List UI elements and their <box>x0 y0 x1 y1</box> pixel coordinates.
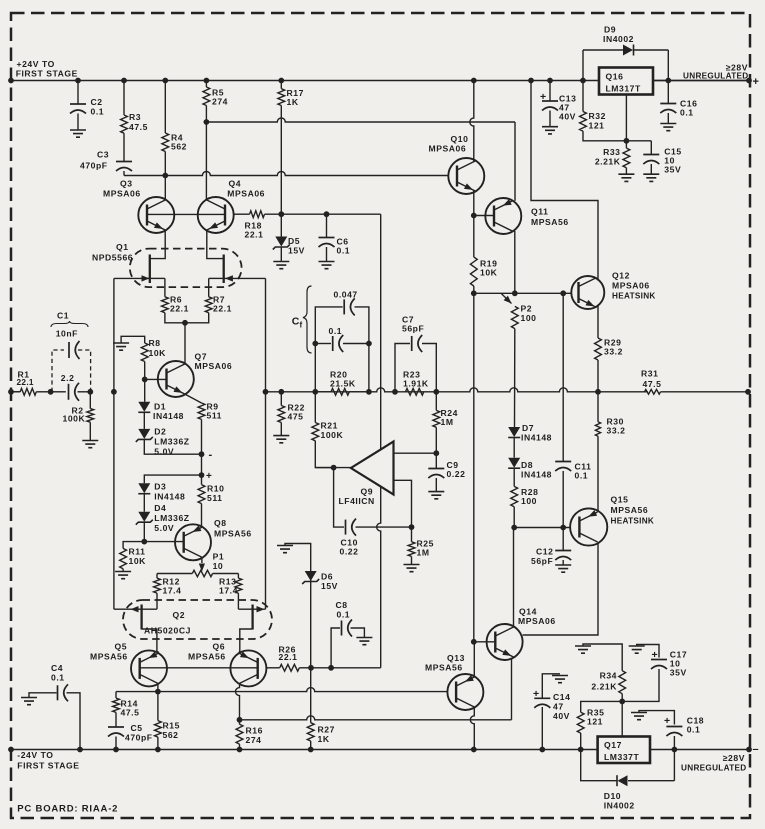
transistor Q6 MPSA56 <box>230 650 266 686</box>
transistor Q11 MPSA56 <box>485 198 521 234</box>
svg-text:UNREGULATED: UNREGULATED <box>683 72 748 81</box>
op-amp Q9 LF411CN <box>351 442 394 495</box>
resistor R21 <box>314 392 316 423</box>
wire Q14 emitter <box>511 658 513 720</box>
feedback caps Cf <box>315 307 342 392</box>
transistor Q10 MPSA06 <box>448 158 484 194</box>
svg-text:AH5020CJ: AH5020CJ <box>144 626 191 636</box>
svg-text:MPSA56: MPSA56 <box>425 663 463 673</box>
svg-text:22.1: 22.1 <box>213 304 232 314</box>
resistor R27 <box>310 668 312 723</box>
transistor Q15 MPSA56 HEATSINK <box>570 508 607 545</box>
wire Q13 collector to rail <box>470 707 474 750</box>
capacitor C4 <box>29 693 57 698</box>
svg-text:MPSA06: MPSA06 <box>612 281 650 291</box>
capacitor C7 <box>395 344 410 392</box>
wire Q5-Q6 base tie <box>140 667 258 669</box>
resistor R23 <box>406 388 424 395</box>
svg-text:0.047: 0.047 <box>334 290 358 300</box>
JFET Q1 left gate wire to input node <box>114 277 150 279</box>
regulator Q16 LM317T <box>599 68 653 95</box>
wire Q5 collector to node <box>157 684 159 692</box>
svg-text:0.1: 0.1 <box>687 725 701 735</box>
capacitor C2 <box>77 81 79 105</box>
resistor R35 <box>581 701 623 712</box>
capacitor C16 <box>667 81 669 104</box>
svg-text:P1: P1 <box>213 552 225 562</box>
svg-text:HEATSINK: HEATSINK <box>612 292 656 301</box>
resistor R9 <box>198 403 205 419</box>
wire op-amp output <box>315 467 351 469</box>
svg-text:33.2: 33.2 <box>604 347 623 357</box>
svg-text:+: + <box>206 471 212 482</box>
svg-text:40V: 40V <box>553 711 570 721</box>
trimpot P1 <box>201 557 203 563</box>
svg-text:LM336Z: LM336Z <box>154 513 189 523</box>
wire Q11 collector to P2 node <box>514 231 516 293</box>
resistor R26 <box>266 667 279 669</box>
dual JFET Q2 AH5020CJ dashed outline <box>123 600 272 639</box>
svg-text:≥28V: ≥28V <box>723 753 745 763</box>
svg-text:0.22: 0.22 <box>447 469 466 479</box>
wire R6/R7 junction to Q7 collector <box>184 323 186 364</box>
svg-text:Q14: Q14 <box>519 607 537 617</box>
svg-text:22.1: 22.1 <box>170 304 189 314</box>
wire Q16 adj pin <box>625 95 627 141</box>
resistor R20 <box>331 388 349 395</box>
resistor R1 <box>11 391 20 393</box>
node minus <box>199 451 205 457</box>
capacitor C9 <box>435 453 437 468</box>
svg-text:+: + <box>753 76 759 88</box>
svg-text:MPSA06: MPSA06 <box>227 189 265 199</box>
svg-text:Q17: Q17 <box>604 740 622 750</box>
wire Q17 adj pin <box>621 701 623 736</box>
svg-text:NPD5566: NPD5566 <box>92 253 133 263</box>
capacitor C17 <box>637 645 659 658</box>
svg-text:D8: D8 <box>521 460 533 470</box>
svg-text:R31: R31 <box>641 369 658 379</box>
resistor R22 <box>280 392 282 406</box>
node -24V rail <box>11 749 598 751</box>
wire negative feed to op-amp V- <box>311 667 381 669</box>
JFET Q1 left half <box>149 255 151 630</box>
svg-text:–: – <box>753 744 759 756</box>
svg-text:0.1: 0.1 <box>51 673 65 683</box>
transistor Q5 MPSA56 <box>131 650 167 686</box>
capacitor C1 bypass dashed box <box>52 350 91 392</box>
diode D3 <box>144 475 201 483</box>
svg-text:2.21K: 2.21K <box>591 682 617 692</box>
svg-text:C3: C3 <box>97 150 109 160</box>
svg-text:2.2: 2.2 <box>61 373 75 383</box>
resistor R8 <box>121 336 145 343</box>
svg-text:56pF: 56pF <box>531 556 553 566</box>
svg-text:Q13: Q13 <box>447 653 465 663</box>
svg-text:Q12: Q12 <box>612 271 630 281</box>
svg-text:C5: C5 <box>131 723 143 733</box>
capacitor C3 <box>116 161 132 163</box>
svg-text:Q9: Q9 <box>361 487 374 497</box>
svg-text:Q6: Q6 <box>213 642 226 652</box>
wire input bus <box>11 391 20 393</box>
svg-text:470pF: 470pF <box>80 161 108 171</box>
svg-text:Q3: Q3 <box>120 179 133 189</box>
capacitor 2.2 <box>48 389 54 395</box>
wire Q16 output node <box>653 80 749 82</box>
svg-text:D10: D10 <box>604 791 621 801</box>
capacitor C12 <box>562 528 564 551</box>
svg-text:33.2: 33.2 <box>607 426 626 436</box>
svg-text:17.4: 17.4 <box>219 586 238 596</box>
JFET Q1 right half <box>223 255 225 284</box>
svg-text:MPSA56: MPSA56 <box>531 217 569 227</box>
resistor R3 <box>123 81 125 116</box>
svg-text:10K: 10K <box>149 348 167 358</box>
wire Q3-Q4 base tie <box>147 213 225 215</box>
resistor R18 <box>234 213 250 215</box>
resistor R14 <box>115 692 117 699</box>
resistor R5 <box>205 81 207 88</box>
svg-text:LM317T: LM317T <box>606 84 641 94</box>
svg-text:MPSA06: MPSA06 <box>518 616 556 626</box>
capacitor Cf 0.1 <box>315 343 331 345</box>
wire Q14 collector <box>513 528 515 628</box>
diode D8 <box>513 438 515 458</box>
svg-text:35V: 35V <box>670 668 687 678</box>
svg-text:R34: R34 <box>600 671 617 681</box>
svg-text:LM336Z: LM336Z <box>154 437 189 447</box>
svg-text:+: + <box>533 688 539 700</box>
capacitor C18 <box>639 711 674 725</box>
svg-text:1K: 1K <box>318 734 330 744</box>
svg-text:Q16: Q16 <box>606 72 624 82</box>
svg-text:15V: 15V <box>321 581 338 591</box>
resistor R24 <box>435 392 437 411</box>
zener D4 LM336Z <box>143 494 145 512</box>
capacitor C14 <box>541 707 543 750</box>
resistor R28 <box>513 468 515 486</box>
wire Q6 collector <box>236 684 240 720</box>
svg-text:C2: C2 <box>91 97 103 107</box>
resistor R2 <box>87 389 93 395</box>
svg-text:R8: R8 <box>149 338 161 348</box>
resistor R17 <box>280 81 282 89</box>
svg-text:R10: R10 <box>207 484 224 494</box>
svg-text:IN4148: IN4148 <box>521 470 552 480</box>
svg-text:Q1: Q1 <box>116 242 129 252</box>
node +24V rail <box>11 80 599 82</box>
wire op-amp + input <box>394 452 437 454</box>
svg-text:+: + <box>664 715 670 727</box>
svg-text:Q7: Q7 <box>195 352 208 362</box>
svg-text:Q4: Q4 <box>229 179 242 189</box>
svg-text:0.22: 0.22 <box>340 547 359 557</box>
resistor R15 <box>157 692 159 721</box>
resistor R12 <box>156 574 158 579</box>
svg-text:47: 47 <box>553 702 564 712</box>
svg-text:-: - <box>209 449 213 461</box>
svg-text:D9: D9 <box>604 25 616 35</box>
svg-text:1.91K: 1.91K <box>403 379 429 389</box>
svg-text:D5: D5 <box>288 236 300 246</box>
svg-text:1M: 1M <box>441 417 454 427</box>
svg-text:D1: D1 <box>154 402 166 412</box>
dual JFET Q1 NPD5566 dashed outline <box>130 249 242 288</box>
wire Q6 emitter <box>239 651 241 654</box>
svg-text:D2: D2 <box>154 427 166 437</box>
wire Q5 emitter <box>157 651 159 654</box>
svg-text:+24V TO: +24V TO <box>17 59 55 69</box>
svg-text:Q10: Q10 <box>451 134 469 144</box>
svg-text:511: 511 <box>207 493 223 503</box>
capacitor C10 <box>334 468 344 527</box>
svg-text:R15: R15 <box>163 721 180 731</box>
svg-text:R32: R32 <box>589 111 606 121</box>
JFET Q2 right half <box>238 608 265 610</box>
svg-text:100K: 100K <box>63 413 86 423</box>
svg-text:Q15: Q15 <box>611 495 629 505</box>
svg-text:LF4IICN: LF4IICN <box>339 496 375 506</box>
wire R19 node down to Q14 base <box>473 293 475 642</box>
JFET Q1 right gate wire to feedback node <box>224 277 266 279</box>
wire R16 line <box>240 716 512 720</box>
svg-text:1K: 1K <box>287 97 299 107</box>
svg-text:+: + <box>540 91 546 103</box>
resistor R7 <box>205 297 212 313</box>
capacitor C6 <box>326 214 328 237</box>
resistor R6 <box>162 297 169 313</box>
svg-text:PC BOARD: RIAA-2: PC BOARD: RIAA-2 <box>17 804 118 815</box>
diode D10 IN4002 <box>581 750 618 781</box>
wire rail to Q12 collector <box>531 81 598 281</box>
resistor R19 <box>473 216 475 258</box>
wire Q7 emitter to R9 <box>185 394 202 403</box>
wire Q3 emitter to Q1 drain <box>150 230 165 259</box>
svg-text:MPSA56: MPSA56 <box>214 529 252 539</box>
diode D7 <box>514 329 516 427</box>
svg-text:D7: D7 <box>522 423 534 433</box>
svg-text:0.1: 0.1 <box>680 108 694 118</box>
svg-text:MPSA06: MPSA06 <box>429 144 467 154</box>
svg-text:FIRST STAGE: FIRST STAGE <box>17 761 79 771</box>
zener diode D5 <box>280 214 282 236</box>
wire Q13 emitter <box>473 642 475 677</box>
capacitor C8 <box>331 628 340 668</box>
svg-text:R11: R11 <box>129 547 146 557</box>
JFET Q2 left half <box>114 608 157 610</box>
resistor R30 <box>597 392 599 422</box>
resistor R4 <box>164 81 166 134</box>
resistor R10 <box>201 475 203 485</box>
wire lower mirror line to Q13 base <box>116 691 158 693</box>
svg-text:Q8: Q8 <box>214 518 227 528</box>
resistor R25 <box>411 527 413 542</box>
capacitor C13 <box>549 81 551 102</box>
svg-text:LM337T: LM337T <box>604 752 639 762</box>
svg-text:56pF: 56pF <box>402 324 424 334</box>
svg-text:0.1: 0.1 <box>575 471 589 481</box>
svg-text:15V: 15V <box>288 246 305 256</box>
svg-text:1M: 1M <box>417 548 430 558</box>
wire Q10 collector to rail <box>470 81 474 162</box>
svg-text:f: f <box>300 321 303 330</box>
resistor R11 <box>123 542 144 549</box>
svg-text:R3: R3 <box>129 112 141 122</box>
transistor Q3 MPSA06 <box>138 197 174 233</box>
svg-text:5.0V: 5.0V <box>154 447 174 457</box>
svg-text:511: 511 <box>207 411 223 421</box>
svg-text:IN4002: IN4002 <box>604 801 635 811</box>
wire Q3 collector <box>164 176 166 201</box>
svg-text:Q2: Q2 <box>173 610 186 620</box>
svg-text:IN4148: IN4148 <box>521 433 552 443</box>
capacitor C15 <box>650 141 652 155</box>
svg-text:22.1: 22.1 <box>279 652 298 662</box>
svg-text:IN4002: IN4002 <box>603 34 634 44</box>
diode D1 <box>144 379 146 401</box>
svg-text:MPSA56: MPSA56 <box>188 652 226 662</box>
svg-text:5.0V: 5.0V <box>154 523 174 533</box>
svg-text:121: 121 <box>587 717 603 727</box>
wire Q2 left gate from input node <box>113 392 115 609</box>
svg-text:Q5: Q5 <box>115 642 128 652</box>
wire Q2 right gate from feedback node <box>265 392 267 609</box>
svg-text:-24V TO: -24V TO <box>17 750 53 760</box>
wire R28 to Q15 base <box>514 527 570 529</box>
resistor R13 <box>237 574 239 579</box>
svg-text:0.1: 0.1 <box>329 326 343 336</box>
svg-text:0.1: 0.1 <box>337 610 351 620</box>
svg-text:100K: 100K <box>321 430 344 440</box>
svg-text:D4: D4 <box>154 503 166 513</box>
svg-text:0.1: 0.1 <box>337 246 351 256</box>
wire C3/R4 to Q10 base <box>124 172 449 176</box>
svg-text:MPSA06: MPSA06 <box>195 361 233 371</box>
transistor Q4 MPSA06 <box>198 197 234 233</box>
svg-text:17.4: 17.4 <box>163 586 182 596</box>
resistor R16 <box>239 720 241 725</box>
svg-text:C12: C12 <box>536 547 553 557</box>
svg-text:100: 100 <box>521 496 537 506</box>
svg-text:R16: R16 <box>246 726 263 736</box>
resistor R33 <box>623 148 630 168</box>
svg-text:121: 121 <box>589 121 605 131</box>
svg-text:21.5K: 21.5K <box>330 379 356 389</box>
svg-text:47.5: 47.5 <box>643 379 662 389</box>
svg-text:475: 475 <box>288 412 304 422</box>
svg-text:22.1: 22.1 <box>17 377 34 387</box>
resistor R34 <box>583 644 622 671</box>
svg-text:40V: 40V <box>559 112 576 122</box>
wire Q11/P2 node to Q12 base <box>474 292 572 294</box>
svg-text:IN4148: IN4148 <box>153 411 184 421</box>
svg-text:274: 274 <box>212 97 228 107</box>
svg-text:D6: D6 <box>321 572 333 582</box>
svg-text:MPSA06: MPSA06 <box>103 189 141 199</box>
diode D9 IN4002 <box>582 50 584 81</box>
capacitor C5 <box>108 726 124 728</box>
svg-text:47.5: 47.5 <box>129 122 148 132</box>
svg-text:R33: R33 <box>603 147 620 157</box>
svg-text:10nF: 10nF <box>56 329 78 339</box>
svg-text:R27: R27 <box>318 725 335 735</box>
svg-text:0.1: 0.1 <box>91 107 105 117</box>
wire feedback bus <box>266 388 648 392</box>
svg-text:IN4148: IN4148 <box>154 492 185 502</box>
capacitor C11 <box>562 293 564 461</box>
wire op-amp - input <box>394 480 412 527</box>
svg-text:MPSA56: MPSA56 <box>90 652 128 662</box>
resistor R29 <box>597 305 599 339</box>
svg-text:10: 10 <box>213 561 224 571</box>
svg-text:C14: C14 <box>553 692 570 702</box>
wire Q15 collector to Q14 <box>523 543 598 636</box>
svg-text:D3: D3 <box>154 482 166 492</box>
wire R5 to Q4 collector <box>205 122 207 200</box>
svg-text:C4: C4 <box>51 663 63 673</box>
svg-text:100: 100 <box>521 313 537 323</box>
svg-text:FIRST STAGE: FIRST STAGE <box>16 69 78 79</box>
svg-text:C1: C1 <box>57 311 69 321</box>
svg-text:35V: 35V <box>664 165 681 175</box>
svg-text:C8: C8 <box>336 600 348 610</box>
resistor R31 <box>645 389 661 394</box>
wire R5 branch to Q11 emitter <box>206 118 515 122</box>
transistor Q7 MPSA06 <box>158 361 194 397</box>
transistor Q8 MPSA56 <box>175 524 211 560</box>
svg-text:47.5: 47.5 <box>121 708 140 718</box>
trimpot P2 <box>501 293 512 303</box>
svg-text:10K: 10K <box>129 556 147 566</box>
transistor Q14 MPSA06 <box>487 624 523 660</box>
svg-text:UNREGULATED: UNREGULATED <box>681 764 746 773</box>
svg-text:MPSA56: MPSA56 <box>611 505 649 515</box>
svg-text:22.1: 22.1 <box>245 230 264 240</box>
wire Q4 emitter to Q1 drain <box>207 230 223 259</box>
svg-text:470pF: 470pF <box>125 733 153 743</box>
wire R18 node to op-amp V+ <box>380 214 382 449</box>
svg-text:+: + <box>652 649 658 661</box>
svg-text:HEATSINK: HEATSINK <box>611 517 655 526</box>
transistor Q12 MPSA06 HEATSINK <box>571 276 604 309</box>
regulator Q17 LM337T <box>598 737 650 764</box>
zener D6 <box>310 571 312 668</box>
svg-text:Q11: Q11 <box>531 207 548 217</box>
wire Q10 emitter <box>473 191 475 216</box>
svg-text:2.21K: 2.21K <box>595 157 621 167</box>
svg-text:R21: R21 <box>321 421 338 431</box>
svg-text:562: 562 <box>171 142 187 152</box>
resistor R32 <box>582 81 584 112</box>
svg-text:10K: 10K <box>480 268 498 278</box>
node plus <box>201 454 203 475</box>
svg-text:562: 562 <box>163 730 179 740</box>
zener D2 LM336Z <box>143 412 145 429</box>
transistor Q13 MPSA56 <box>447 674 483 710</box>
svg-text:274: 274 <box>246 735 262 745</box>
svg-text:P2: P2 <box>521 304 533 314</box>
